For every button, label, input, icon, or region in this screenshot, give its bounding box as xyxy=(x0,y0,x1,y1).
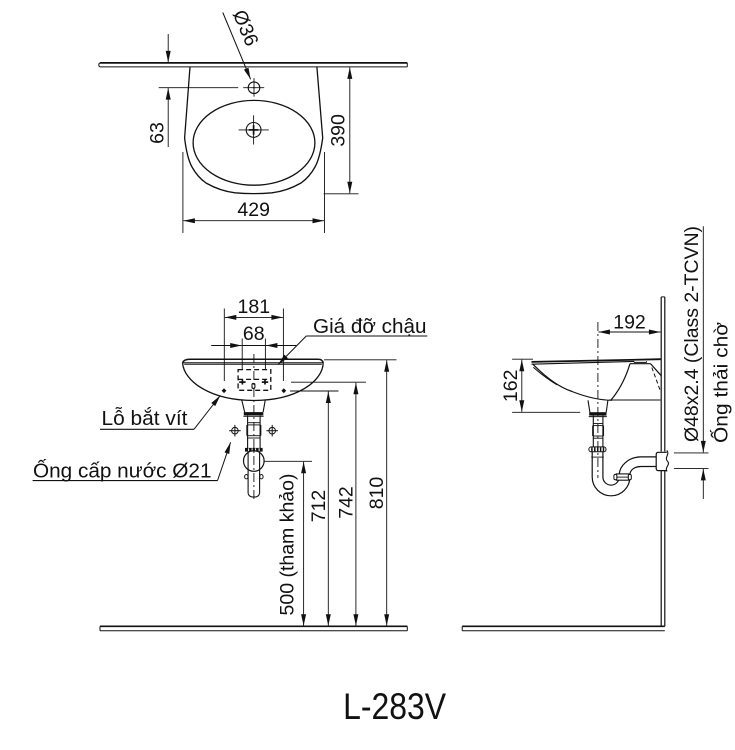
svg-text:Giá đỡ chậu: Giá đỡ chậu xyxy=(313,315,427,338)
svg-text:Ø36: Ø36 xyxy=(228,7,263,50)
svg-text:68: 68 xyxy=(243,323,265,345)
svg-text:Lỗ bắt vít: Lỗ bắt vít xyxy=(102,407,188,430)
svg-text:L-283V: L-283V xyxy=(343,686,446,727)
svg-text:810: 810 xyxy=(366,477,388,510)
svg-text:390: 390 xyxy=(328,114,350,147)
svg-text:63: 63 xyxy=(147,122,169,144)
svg-text:712: 712 xyxy=(308,490,330,523)
svg-text:Ống cấp nước Ø21: Ống cấp nước Ø21 xyxy=(33,459,212,483)
svg-text:Ø48x2.4 (Class 2-TCVN): Ø48x2.4 (Class 2-TCVN) xyxy=(681,226,703,442)
svg-text:500 (tham khảo): 500 (tham khảo) xyxy=(277,474,299,616)
svg-text:Ống thải chờ: Ống thải chờ xyxy=(709,322,733,443)
svg-text:429: 429 xyxy=(237,199,270,221)
svg-text:192: 192 xyxy=(613,311,646,333)
svg-text:742: 742 xyxy=(336,486,358,519)
svg-text:181: 181 xyxy=(238,296,271,318)
svg-text:162: 162 xyxy=(500,370,522,403)
